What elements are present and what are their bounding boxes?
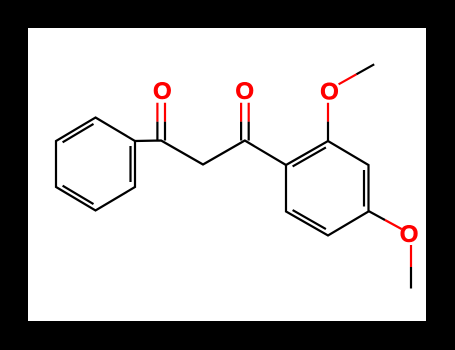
left ring aromatic double bond (top-left edge): [63, 124, 94, 142]
right ring aromatic double bond (bottom-left edge): [293, 210, 326, 229]
svg-text:O: O: [153, 78, 172, 105]
bond: ring C2' to methoxy O, red half near O: [327, 103, 329, 122]
bond: ring C2' to methoxy O, black half near ring: [327, 122, 329, 141]
bond: methoxy O1m to CH3, red half near O: [339, 74, 357, 84]
bond: ring C4' to methoxy O, red half near O: [385, 220, 402, 229]
bond: methoxy O2m to CH3, black half near CH3: [410, 267, 412, 289]
left benzene ring (phenyl) outline: [56, 118, 135, 211]
carbonyl C1=O double bond, red halves near O: [157, 103, 165, 122]
right benzene ring (2,4-dimethoxyphenyl) outline: [286, 141, 369, 236]
left ring aromatic double bond (right edge): [129, 146, 131, 182]
svg-text:O: O: [235, 78, 254, 105]
carbonyl C3=O double bond, red halves near O: [241, 103, 249, 122]
carbonyl C1=O double bond, black halves near C1: [157, 122, 165, 141]
svg-text:O: O: [400, 221, 419, 248]
right ring aromatic double bond (right edge): [363, 170, 365, 207]
bond: ring C4' to methoxy O, black half near ring: [369, 211, 386, 220]
bond: methoxy O1m to CH3, black half near CH3: [356, 64, 374, 74]
bond: methoxy O2m to CH3, red half near O: [410, 245, 412, 267]
right ring aromatic double bond (top-left edge): [293, 147, 326, 166]
bond chain: phenyl ring to C1 to CH2 to C3 to aryl ring ipso carbon: [135, 141, 286, 166]
left ring aromatic double bond (bottom-left edge): [63, 186, 94, 204]
carbonyl C3=O double bond, black halves near C3: [241, 122, 249, 141]
svg-text:O: O: [320, 78, 339, 105]
